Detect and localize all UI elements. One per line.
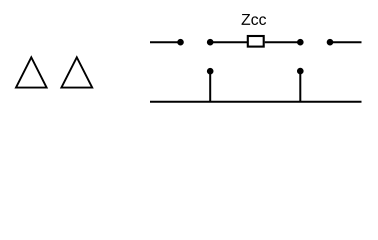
wire right stub vertical: [299, 71, 301, 102]
label Zcc: [242, 14, 267, 25]
amplifier triangle 1: [16, 57, 47, 87]
wire bottom rail: [150, 101, 362, 103]
node dot d: [327, 39, 334, 46]
impedance Zcc box: [248, 36, 264, 47]
node dot c: [297, 39, 304, 46]
wire from node b to impedance: [210, 41, 247, 43]
node dot b: [207, 39, 214, 46]
node dot e (left stub top): [207, 68, 214, 75]
wire top-left segment: [150, 41, 181, 43]
amplifier triangle 2: [61, 57, 92, 87]
wire left stub vertical: [209, 71, 211, 102]
node dot f (right stub top): [297, 68, 304, 75]
wire top-right segment: [330, 41, 362, 43]
node dot a: [177, 39, 184, 46]
wire from impedance to node c: [265, 41, 301, 43]
